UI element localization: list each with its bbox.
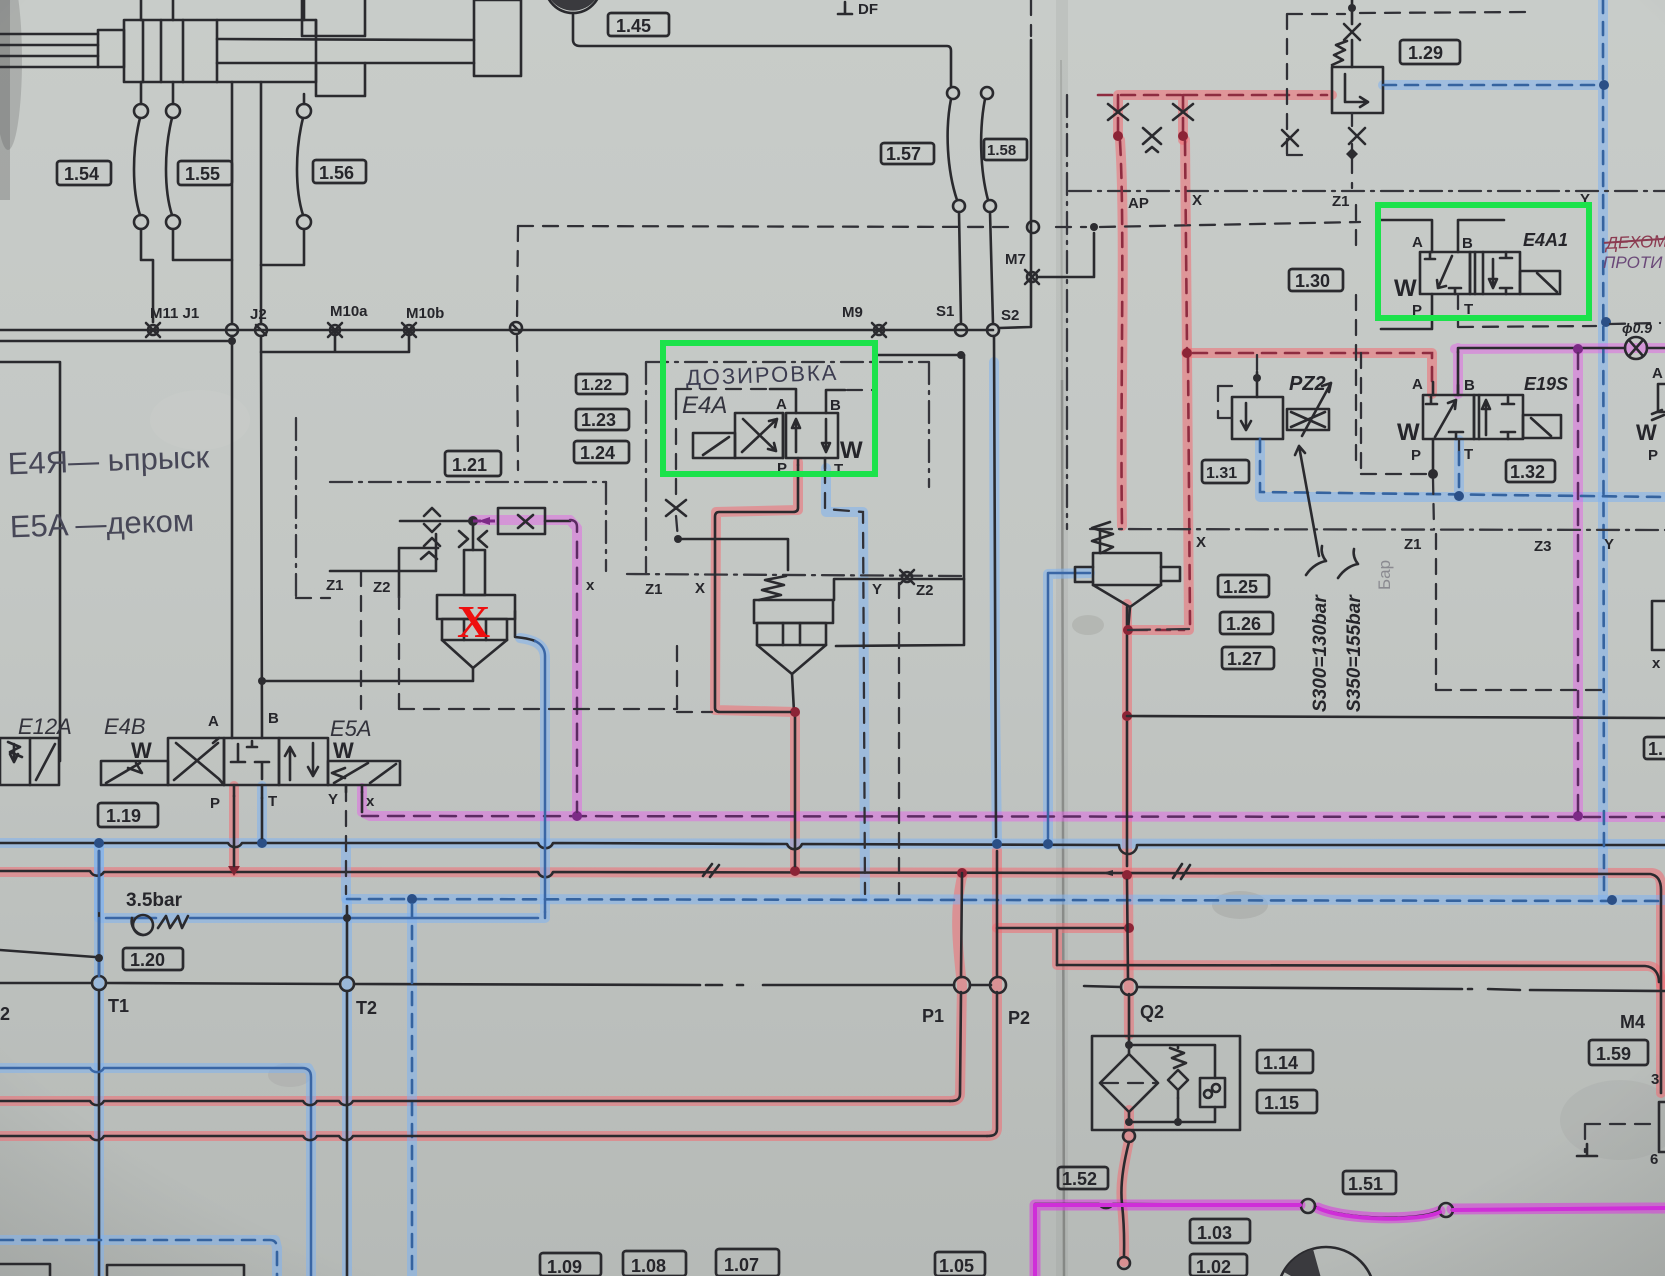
test point Y-Z2 [900, 570, 914, 584]
wire: P1 riser x=961 [950, 873, 962, 1101]
box 1.24 [574, 441, 629, 463]
node link Q2 [1124, 923, 1134, 933]
valve PZ2 plunger [1287, 409, 1329, 430]
svg-text:Z1: Z1 [326, 577, 344, 594]
valve E4A cell X [735, 413, 783, 458]
box 1.30 [1289, 269, 1343, 291]
wire Y column dashed [1603, 0, 1604, 894]
valve E4A1 solenoid [1520, 271, 1560, 294]
svg-text:1.54: 1.54 [64, 164, 99, 184]
box 1.57 [881, 143, 934, 164]
valve PZ2 top stub [1256, 372, 1259, 397]
wire: T2 column x=347 [346, 906, 349, 1276]
port hooks E4A1 bottom [1381, 294, 1432, 329]
svg-text:B: B [1462, 235, 1473, 252]
wire: relief drain column x=1127 [1127, 607, 1129, 1036]
wire relief pilot top [1099, 529, 1102, 553]
box 1.32 [1506, 460, 1555, 482]
port stub 1.55 [172, 82, 175, 104]
cylinder head block low [316, 63, 365, 96]
svg-text:1.: 1. [1648, 739, 1663, 759]
wire: lower bus y=1136 [0, 1136, 987, 1140]
blue highlight: return riser x=1048 [1048, 573, 1090, 845]
left stub to Z2 [399, 548, 438, 597]
wire: lower bus y=1101 [0, 1101, 950, 1105]
pilot line X down [1133, 141, 1190, 630]
magenta highlight: bottom suction line y=1205 [1035, 1205, 1665, 1276]
filter bypass check [1168, 1070, 1188, 1098]
svg-text:M10b: M10b [406, 305, 444, 322]
svg-text:P1: P1 [922, 1006, 944, 1026]
wire dashed x=361 [296, 571, 361, 709]
node 1.29 top [1348, 4, 1356, 12]
box 1.54 [57, 161, 111, 185]
svg-text:B: B [268, 710, 279, 727]
junction J1 [226, 324, 238, 336]
svg-text:PZ2: PZ2 [1289, 373, 1326, 395]
svg-text:1.23: 1.23 [581, 410, 616, 430]
node drain jog [790, 707, 800, 717]
box 1.27 [1222, 647, 1274, 669]
svg-text:1.45: 1.45 [616, 16, 651, 36]
wire P red path core [715, 465, 798, 712]
node y918 [343, 914, 351, 922]
box 1.14 [1257, 1050, 1313, 1073]
wire: return riser x=1048 [1048, 573, 1090, 838]
svg-text:Z2: Z2 [373, 579, 391, 596]
check valve 3.5bar [132, 915, 153, 935]
shuttle check chain [421, 508, 440, 559]
svg-text:Y: Y [872, 581, 882, 598]
node tank bus S2-drop [992, 839, 1002, 849]
filter gauge box [1200, 1078, 1225, 1107]
wire: cylinder A-line x=232 [231, 82, 234, 738]
wire 1.20 left stub [0, 950, 95, 957]
green annotation box dosing E4A [663, 343, 875, 474]
node stub [95, 954, 103, 962]
svg-text:M11 J1: M11 J1 [150, 305, 199, 322]
pilot loop top dashed y=95 [1098, 95, 1327, 136]
valve 1.29 top check [1344, 24, 1360, 40]
valve E4A1 arrow left cell [1425, 252, 1461, 294]
dosing manifold dash-dot frame [646, 362, 929, 574]
junction J2 [255, 324, 267, 336]
wire: cooler line y=1068 [0, 1068, 311, 1276]
orifice box [498, 508, 545, 534]
valve 1.29 square [1332, 67, 1383, 113]
wire 1.29 outlet dashed blue [1383, 84, 1597, 87]
node B-branch [258, 677, 266, 685]
handwriting crossed word [1604, 232, 1665, 253]
red highlight: relief valve drain down to Q2 and filter [1121, 604, 1129, 1262]
junction S1 [955, 324, 967, 336]
box 1.52 [1058, 1167, 1108, 1189]
valve E5A solenoid right [328, 761, 400, 785]
red highlight: Z1 line to E19S A [1186, 353, 1432, 394]
node P bus E4B [228, 866, 240, 876]
valve E4B cell X [168, 738, 224, 785]
injector cone E4A body [754, 600, 833, 623]
node tank bus riser [1043, 839, 1053, 849]
svg-text:1.09: 1.09 [547, 1257, 582, 1276]
relief valve 1.25 spring [1092, 522, 1113, 553]
svg-text:1.59: 1.59 [1596, 1044, 1631, 1064]
svg-text:1.08: 1.08 [631, 1256, 666, 1276]
valve E4A dashed sub-frame [676, 389, 768, 404]
test point M9 [872, 323, 886, 337]
magenta highlight: column x=1578 [1573, 350, 1583, 814]
svg-text:1.27: 1.27 [1227, 649, 1262, 669]
wire: drain dashed bus y=899 [347, 899, 1665, 901]
node P bus P1 [957, 868, 967, 878]
check below-right 1.29 [1349, 128, 1365, 144]
port Q2 [1121, 979, 1137, 995]
box 1.56 [313, 160, 366, 183]
wire cone wing right to blue [515, 611, 535, 641]
wire M7 branch [1039, 233, 1094, 277]
pilot line Z1 to E19S [1193, 353, 1432, 389]
svg-text:A: A [208, 713, 219, 730]
right edge port bracket [1659, 1102, 1665, 1152]
injector cone E4A funnel [757, 645, 826, 674]
wire magenta column core x=1578 [1577, 353, 1580, 812]
svg-text:P2: P2 [1008, 1008, 1030, 1028]
wire blue drain core [535, 641, 545, 912]
box 1.23 [576, 409, 629, 430]
svg-text:Бар: Бар [1375, 560, 1394, 590]
svg-text:1.24: 1.24 [580, 443, 615, 463]
node relief drain at y=716 [1122, 711, 1132, 721]
wire: T-ports line y=984 [0, 983, 1665, 991]
svg-text:1.55: 1.55 [185, 164, 220, 184]
svg-text:3: 3 [1651, 1071, 1659, 1088]
wire 1.54 down to M11 [141, 229, 153, 322]
dosing manifold bottom boundary [627, 574, 964, 576]
wire P dashed down [1433, 479, 1434, 529]
svg-text:S350=155bar: S350=155bar [1344, 594, 1365, 712]
svg-text:1.07: 1.07 [724, 1255, 759, 1275]
wire 1.29 bottom dashed [1351, 113, 1353, 188]
node pilot 1.21 [468, 516, 478, 526]
check valve below node [459, 526, 487, 550]
injector cone 1.21 cells [442, 619, 507, 640]
wire 1.56 down to J2 [261, 229, 304, 265]
svg-text:W: W [840, 437, 863, 464]
svg-text:1.20: 1.20 [130, 950, 165, 970]
wire: return line y=716 [1127, 716, 1665, 718]
svg-text:1.58: 1.58 [987, 142, 1016, 159]
wire right loop of dosing block [834, 579, 964, 646]
node tank bus T1 [94, 838, 104, 848]
wire E5A X magenta core [361, 792, 364, 812]
hose connector 1.55 [166, 104, 180, 118]
magenta highlight: top line y=348 [1455, 348, 1665, 394]
svg-text:X: X [457, 596, 490, 647]
svg-text:J2: J2 [250, 306, 267, 323]
blue highlight: dosing cone to 3.5bar loop [99, 638, 545, 918]
svg-text:E19S: E19S [1524, 374, 1568, 394]
drain tank symbol [1577, 1144, 1597, 1156]
svg-text:Z1: Z1 [645, 581, 663, 598]
node x=1094 [1090, 223, 1098, 231]
dash-dot break marks on T line [706, 985, 1520, 990]
wire pilot dashed y=226 [518, 222, 1360, 227]
svg-text:W: W [1636, 420, 1657, 445]
svg-text:1.14: 1.14 [1263, 1053, 1298, 1073]
svg-text:1.03: 1.03 [1197, 1223, 1232, 1243]
wire Z2 dashed drop x=899 [898, 583, 900, 894]
svg-text:1.26: 1.26 [1226, 614, 1261, 634]
node 1.29 bottom [1346, 148, 1358, 160]
wire orifice out [545, 520, 570, 523]
wire 3.5bar loop core [99, 851, 545, 976]
wire pilot to cone spring [678, 539, 788, 570]
wire E4B P drop core [233, 796, 236, 866]
cylinder rod end block [474, 0, 521, 76]
red highlight: dosing valve P path [715, 462, 798, 870]
manifold boundary y=529 [1090, 529, 1665, 530]
cylinder rod clevis [98, 30, 124, 67]
svg-text:P: P [1648, 447, 1658, 464]
svg-text:A: A [776, 396, 787, 413]
wire: pressure bus y=872 [0, 871, 1661, 1093]
relief valve 1.25 wings [1075, 567, 1180, 582]
spring 3.5bar [158, 916, 188, 928]
wire: parallel line y=341 [0, 340, 232, 343]
red highlight: P2-Q2 link and right P line y=965 [997, 928, 1661, 985]
red highlight: P1 riser and lower bus y=1101 [0, 873, 963, 1101]
node pilot bus x=577 [572, 811, 582, 821]
box 1.05 [935, 1252, 985, 1276]
svg-text:Z2: Z2 [916, 582, 934, 599]
node loop right [1178, 131, 1188, 141]
wire: cylinder B-line x=261 [261, 82, 262, 738]
svg-text:W: W [333, 738, 354, 763]
svg-text:E4A1: E4A1 [1523, 230, 1568, 250]
valve E12A spring [8, 742, 22, 757]
svg-text:S2: S2 [1001, 307, 1019, 324]
dashed arrow into node [473, 520, 498, 523]
wire E4B T drop core [261, 798, 264, 838]
filter internal wires [1129, 1036, 1215, 1122]
node y=323 [1601, 317, 1611, 327]
port stub 1.54 [140, 82, 143, 104]
wire magenta pilot core x=577 [570, 520, 577, 812]
injector cone E4A cells [757, 623, 826, 645]
blue highlight: drain bus y=899 [347, 899, 1665, 900]
svg-text:T2: T2 [356, 998, 377, 1018]
hose connector 1.57 [947, 87, 959, 99]
port stubs E4B [234, 785, 362, 798]
node A-line [228, 337, 236, 345]
svg-text:W: W [1394, 275, 1417, 302]
svg-text:3.5bar: 3.5bar [126, 890, 183, 911]
junction circle on x=1031 [1027, 221, 1039, 233]
svg-text:W: W [1397, 419, 1420, 446]
svg-text:1.29: 1.29 [1408, 43, 1443, 63]
port stubs E19S [1433, 382, 1458, 470]
svg-text:2: 2 [0, 1004, 10, 1024]
hose connector 1.54 [134, 104, 148, 118]
svg-text:S300=130bar: S300=130bar [1310, 594, 1331, 712]
wire: T1 column x=99 [98, 851, 101, 1276]
port T2 [340, 977, 354, 991]
box 1.03 [1190, 1219, 1250, 1243]
red highlight: AP pilot line down to relief spring [1120, 140, 1123, 526]
cylinder head block top [302, 0, 365, 36]
wire S1 drop [959, 212, 961, 324]
filter diamond [1100, 1054, 1158, 1112]
svg-text:M10a: M10a [330, 303, 368, 320]
svg-text:1.05: 1.05 [939, 1256, 974, 1276]
wire drain jog dashdot [1128, 629, 1190, 630]
box 1.59 [1589, 1040, 1648, 1065]
pilot piston rect [464, 550, 485, 595]
dash-dot column x=1067 [1066, 95, 1068, 529]
partial box 1.33 [1644, 737, 1665, 759]
box 1.55 [178, 161, 232, 185]
svg-text:1.31: 1.31 [1206, 465, 1237, 482]
node Y blue diamond [1599, 80, 1609, 90]
relief valve 1.25 cone [1093, 585, 1161, 607]
wire S1 branch y=355 [878, 354, 964, 357]
box 1.09 [540, 1253, 601, 1276]
port T1 [92, 976, 106, 990]
wire relief drain top [1128, 607, 1130, 630]
valve PZ2 adjust arrow [1302, 383, 1331, 436]
blue highlight: dosing T dashed path [826, 468, 865, 898]
svg-text:W: W [131, 738, 152, 763]
box 1.15 [1257, 1090, 1317, 1113]
valve E4B cell center [224, 738, 279, 785]
valve 1.29 dashed frame [1287, 12, 1530, 155]
svg-text:1.56: 1.56 [319, 163, 354, 183]
svg-text:M4: M4 [1620, 1012, 1645, 1032]
svg-text:ϕ0.9: ϕ0.9 [1622, 320, 1652, 336]
box 1.51 [1343, 1171, 1396, 1194]
svg-text:S1: S1 [936, 303, 954, 320]
node Z1 tee [1182, 348, 1192, 358]
valve E4A1 left cell [1420, 252, 1470, 294]
svg-text:X: X [1196, 534, 1206, 551]
wire filter to pump [1121, 1142, 1129, 1256]
valve 1.29 internal arrow [1345, 74, 1368, 107]
box 1.07 [716, 1249, 779, 1276]
svg-text:1.57: 1.57 [886, 144, 921, 164]
valve E4B solenoid left [101, 761, 168, 785]
wire: Y dashed drop x=346 [345, 786, 347, 894]
valve E4A cell arrows [786, 413, 838, 458]
svg-text:AP: AP [1128, 195, 1149, 212]
node loop left [1113, 131, 1123, 141]
svg-text:1.52: 1.52 [1062, 1169, 1097, 1189]
svg-text:1.15: 1.15 [1264, 1093, 1299, 1113]
wire: tank bus y=843 with crossing hops [0, 843, 1665, 854]
wire x=1031 column [999, 40, 1031, 328]
blue highlight: cooler line y=1068 [0, 1068, 311, 1276]
svg-text:B: B [830, 397, 841, 414]
check valve loop-left [1108, 104, 1128, 120]
green annotation box E4A1 [1378, 205, 1589, 318]
wire T dashed jog core [825, 468, 865, 894]
valve E19S left cell [1423, 395, 1474, 439]
blue highlight: T2 column [342, 902, 352, 1276]
photo edge shading [0, 0, 10, 200]
svg-text:A: A [1652, 365, 1663, 382]
wire dashed y=712 red segment under [677, 711, 712, 713]
svg-text:X: X [1192, 192, 1202, 209]
valve E4A1 arrow right cell [1475, 252, 1512, 294]
junction x=516 [510, 322, 522, 334]
check valve loop-right [1173, 104, 1193, 120]
node drain [1123, 625, 1133, 635]
injector cone E4A spring [759, 576, 786, 600]
node drain bus x=412 [407, 894, 417, 904]
wire x=964 riser [963, 355, 966, 579]
box 1.20 [123, 948, 183, 970]
magenta highlight: orifice pilot to bus [473, 520, 577, 815]
check valve pilot x=676 [666, 500, 686, 516]
svg-text:x: x [366, 793, 375, 810]
node P bus Q2 [1122, 870, 1132, 880]
cylinder barrel [124, 20, 316, 82]
svg-text:1.19: 1.19 [106, 806, 141, 826]
valve E4B cell arrows [279, 738, 328, 785]
pipe break marks on bus [703, 864, 1190, 879]
red highlight: main P bus y=872 [0, 872, 1661, 1093]
valve PZ2 dashed bracket [1218, 386, 1232, 418]
svg-text:E4Я— ьпрыск: E4Я— ьпрыск [7, 439, 210, 481]
svg-text:T: T [268, 793, 277, 810]
box 1.58 [984, 139, 1027, 160]
svg-text:E4B: E4B [104, 714, 146, 739]
svg-text:E4A: E4A [682, 392, 727, 419]
cylinder rod right [217, 39, 474, 63]
svg-text:1.21: 1.21 [452, 455, 487, 475]
svg-text:A: A [1412, 376, 1423, 393]
valve 1.29 spring [1332, 41, 1347, 65]
suction connector circles [1301, 1199, 1315, 1213]
box 1.31 [1202, 460, 1249, 483]
frame dash-dot top y=482 [330, 481, 606, 483]
box 1.19 [98, 803, 158, 827]
hose connector 1.56 [297, 104, 311, 118]
port hooks E4A1 top [1381, 220, 1504, 252]
svg-text:X: X [695, 580, 705, 597]
wire Z1 dashed column x=1356 [1355, 205, 1357, 470]
node drain bus x=1612 [1607, 895, 1617, 905]
svg-text:1.25: 1.25 [1223, 577, 1258, 597]
box 1.02 [1190, 1254, 1247, 1276]
test point M11 [146, 323, 160, 337]
wire: pilot dashed bus y=816 [362, 816, 1665, 817]
wire B drop magenta core [1457, 352, 1460, 394]
wire dashed y=709 [399, 597, 677, 709]
svg-text:1.51: 1.51 [1348, 1174, 1383, 1194]
filter bypass spring [1170, 1048, 1186, 1068]
blue highlight: E19S T drop and pilot bus y=497 [1260, 440, 1665, 497]
blue highlight: E4B T drop [257, 786, 267, 842]
wire 1.55 down to J1 [173, 229, 232, 260]
wire: drain dashed column x=412 [411, 904, 414, 1276]
node y=355 [957, 351, 965, 359]
blue highlight: S2 line down to bus [994, 362, 997, 843]
port stub 1.56 [303, 94, 306, 104]
svg-text:1.02: 1.02 [1196, 1257, 1231, 1276]
port P2 [990, 977, 1006, 993]
blue highlight: dashed line y=1240 [0, 1240, 277, 1276]
wire E19S T blue dashed [1458, 452, 1461, 492]
